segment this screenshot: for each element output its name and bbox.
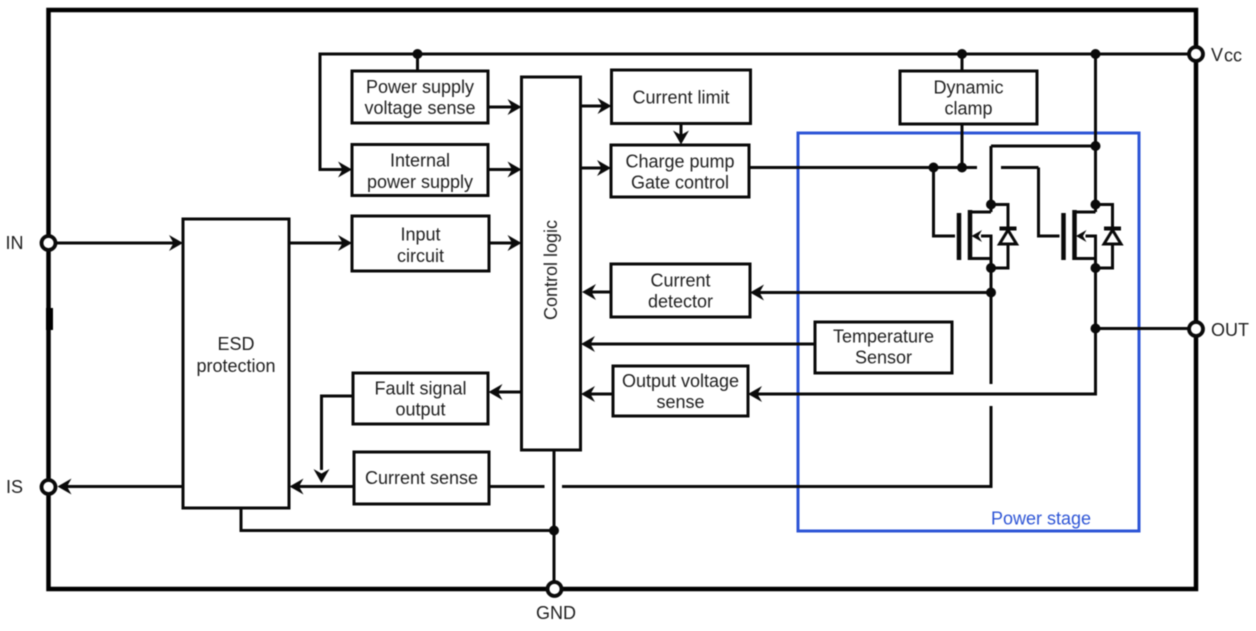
- wire current limit down to charge pump: [680, 124, 683, 140]
- wire left gate drop: [934, 168, 956, 237]
- arrow into IS pin: [58, 479, 72, 495]
- wire control logic to GND: [553, 450, 556, 583]
- block input circuit: [352, 216, 489, 271]
- arrow into output voltage sense: [748, 386, 762, 402]
- arrow into ESD from IN: [169, 235, 183, 251]
- arrow into control logic from PSVS: [508, 99, 522, 115]
- block current detector: [611, 264, 750, 317]
- wire current sense to ESD: [294, 485, 354, 488]
- wire gate rail from charge pump: [749, 166, 977, 169]
- node gate rail clamp: [957, 163, 967, 173]
- block fault signal output: [353, 373, 488, 424]
- arrow into current limit: [598, 98, 612, 114]
- svg-text:clamp: clamp: [944, 99, 992, 119]
- svg-text:Output voltage: Output voltage: [622, 371, 739, 391]
- body diode D1: [991, 205, 1008, 229]
- wire Vcc top rail: [320, 53, 1190, 56]
- wire gate rail right segment: [1001, 166, 1039, 169]
- svg-text:output: output: [395, 400, 445, 420]
- svg-text:circuit: circuit: [397, 246, 444, 266]
- pin IS: [42, 480, 56, 494]
- wire current sense to power stage: [562, 406, 991, 487]
- arrow down into charge pump from current limit: [673, 131, 689, 145]
- wire ESD to input circuit: [289, 242, 349, 245]
- svg-text:IN: IN: [6, 233, 24, 253]
- arrow into fault signal output: [489, 384, 503, 400]
- wire drop to dynamic clamp: [961, 54, 964, 71]
- svg-text:V: V: [1211, 45, 1223, 65]
- arrow into current detector: [750, 285, 764, 301]
- svg-text:OUT: OUT: [1211, 320, 1249, 340]
- wire PSVS to control logic: [488, 106, 518, 109]
- transistor Q2 (right MOSFET): [1064, 205, 1122, 269]
- arrow into control logic from input circuit: [508, 235, 522, 251]
- arrow into control logic from output voltage sense: [581, 386, 595, 402]
- node current detector tap: [986, 288, 996, 298]
- border artifact dash: [46, 308, 53, 330]
- wire left MOSFET source down: [990, 268, 993, 384]
- node Q2 drain: [1091, 200, 1101, 210]
- svg-text:Sensor: Sensor: [855, 348, 912, 368]
- block current sense: [354, 452, 489, 504]
- node drain connector: [1091, 141, 1101, 151]
- svg-text:Power stage: Power stage: [991, 509, 1091, 529]
- wire right drain drop from Vcc rail: [1094, 54, 1097, 212]
- wire output voltage sense to control logic: [585, 393, 613, 396]
- node Vcc/dynamic clamp: [957, 49, 967, 59]
- wire dynamic clamp to gate rail: [961, 124, 964, 168]
- svg-text:Gate control: Gate control: [631, 173, 729, 193]
- blocks: [183, 70, 1037, 508]
- arrow into control logic from current detector: [582, 284, 596, 300]
- wire IPS to control logic: [488, 168, 518, 171]
- wire left drain vertical: [990, 146, 993, 212]
- block control logic: [522, 77, 581, 450]
- svg-text:Control logic: Control logic: [541, 220, 561, 320]
- block temperature sensor: [815, 322, 952, 373]
- wire drain connector: [991, 145, 1096, 148]
- svg-text:ESD: ESD: [217, 334, 254, 354]
- node ground junction: [549, 526, 559, 536]
- pin Vcc: [1189, 47, 1203, 61]
- wire right gate drop: [1039, 168, 1060, 237]
- arrowheads: [58, 98, 765, 495]
- svg-text:Input: Input: [400, 225, 440, 245]
- node OUT tap: [1091, 324, 1101, 334]
- pin OUT: [1189, 322, 1203, 336]
- wire control logic to current limit: [581, 105, 609, 108]
- svg-text:cc: cc: [1224, 46, 1242, 66]
- wire input circuit to control logic: [489, 242, 518, 245]
- arrow down from fault output onto IS line: [314, 469, 330, 483]
- wire drop to power supply voltage sense: [416, 54, 419, 71]
- svg-text:Current limit: Current limit: [632, 88, 729, 108]
- svg-text:Temperature: Temperature: [833, 327, 934, 347]
- wire IN to ESD: [57, 242, 180, 245]
- svg-text:Current: Current: [650, 271, 710, 291]
- svg-text:voltage sense: voltage sense: [364, 98, 475, 118]
- arrow into internal power supply: [338, 162, 352, 178]
- arrow into control logic from IPS: [508, 162, 522, 178]
- wire control logic to fault signal output: [492, 391, 522, 394]
- node Vcc/drain: [1091, 49, 1101, 59]
- svg-text:detector: detector: [648, 292, 713, 312]
- svg-text:power supply: power supply: [367, 172, 473, 192]
- node Vcc/PSVS: [413, 49, 423, 59]
- block current limit: [612, 70, 751, 124]
- svg-text:Fault signal: Fault signal: [374, 379, 466, 399]
- block dynamic clamp: [900, 71, 1037, 124]
- body diode D2: [1096, 205, 1113, 229]
- wire current sense right segment: [489, 485, 545, 488]
- arrow into charge pump from control logic: [597, 160, 611, 176]
- transistor Q1 (left MOSFET): [959, 205, 1017, 269]
- wire right MOSFET source down: [752, 268, 1096, 394]
- wire left rail drop to internal power supply: [320, 53, 349, 170]
- arrow into control logic from temperature sensor: [581, 336, 595, 352]
- wire control logic to charge pump: [581, 167, 609, 170]
- block internal power supply: [352, 145, 488, 196]
- svg-text:protection: protection: [196, 356, 275, 376]
- svg-text:Power supply: Power supply: [366, 77, 474, 97]
- svg-text:IS: IS: [6, 477, 23, 497]
- power stage boundary (blue): [798, 133, 1139, 531]
- block power supply voltage sense: [352, 71, 488, 123]
- wire current detector right: [753, 291, 991, 294]
- pin GND: [548, 582, 562, 596]
- svg-text:Internal: Internal: [390, 151, 450, 171]
- wire fault output down to IS line: [322, 396, 354, 470]
- wire OUT: [1096, 327, 1190, 330]
- svg-text:Charge pump: Charge pump: [625, 152, 734, 172]
- svg-text:Dynamic: Dynamic: [933, 78, 1003, 98]
- svg-text:GND: GND: [536, 603, 576, 623]
- wire current detector to control logic: [585, 291, 611, 294]
- svg-text:sense: sense: [656, 392, 704, 412]
- wire ESD bottom to ground: [241, 508, 554, 531]
- block ESD protection: [183, 219, 289, 508]
- node gate rail left: [929, 163, 939, 173]
- block output voltage sense: [613, 366, 748, 416]
- wire temperature sensor to control logic: [585, 343, 815, 346]
- wire ESD to IS pin: [61, 485, 183, 488]
- arrow into input circuit: [338, 235, 352, 251]
- block charge pump gate control: [611, 145, 749, 197]
- node Q1 drain: [986, 200, 996, 210]
- node Q2 source: [1091, 263, 1101, 273]
- node Q1 source: [986, 263, 996, 273]
- pin IN: [42, 236, 56, 250]
- svg-text:Current sense: Current sense: [365, 468, 478, 488]
- arrow into ESD from current sense: [290, 479, 304, 495]
